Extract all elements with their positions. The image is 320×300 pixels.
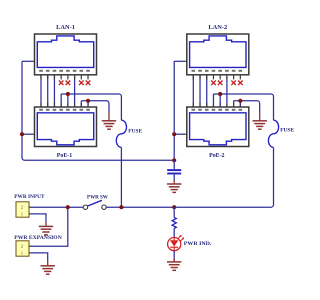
junction PoE-1 pins 4-5 bbox=[66, 92, 70, 96]
RJ45 jack LAN-2 bbox=[187, 34, 249, 75]
junction fuse F1 / power rail bbox=[119, 205, 123, 209]
ground stub J1 bbox=[45, 222, 47, 226]
wire power rail to resistor R1 bbox=[173, 207, 175, 217]
J2 pin 2 stub bbox=[29, 245, 32, 247]
wire LAN-2 pin1 to PoE-2 pin1 bbox=[192, 75, 194, 107]
svg-text:2: 2 bbox=[21, 244, 23, 249]
wire J1 pin2 to switch SW1 bbox=[32, 206, 84, 208]
wire shield net mid vertical bbox=[173, 61, 175, 160]
PoE-2 pin stubs bbox=[193, 103, 240, 107]
wire LED D1 to ground bbox=[173, 251, 175, 261]
svg-text:PoE-2: PoE-2 bbox=[209, 153, 224, 159]
wire LAN-1 pin2 to PoE-1 pin2 bbox=[47, 75, 49, 107]
ground stub capacitor C1 bbox=[173, 180, 175, 184]
junction PoE-2 pins 7-8 bbox=[238, 99, 242, 103]
ground LED D1 bbox=[167, 262, 181, 270]
LAN-1 pin number labels bbox=[39, 70, 90, 72]
wire V+ rail to fuse 1 bbox=[61, 94, 121, 120]
wire return rail to ground 1 bbox=[81, 101, 109, 113]
LAN-1 pin stubs bbox=[41, 75, 88, 80]
wire LAN-2 pin3 to PoE-2 pin3 bbox=[206, 75, 208, 107]
wire fuse F2 to power rail corner bbox=[271, 147, 274, 207]
PoE-1 pin stubs bbox=[41, 103, 88, 107]
wire LAN-1 pin6 to PoE-1 pin6 bbox=[74, 75, 76, 107]
wire PoE-2 pin7 up bbox=[233, 101, 235, 107]
wire PoE-2 pin4 up bbox=[212, 94, 214, 107]
fuse FUSE F1 bbox=[116, 120, 126, 147]
wire PoE-2 shield pin bbox=[174, 133, 183, 135]
PoE-2 pin number labels bbox=[192, 109, 243, 111]
wire J2 pin2 to power tap bbox=[32, 207, 68, 246]
RJ45 jack PoE-2 bbox=[187, 107, 249, 147]
wire J2 pin1 to ground bbox=[32, 253, 48, 262]
J1 pin 2 stub bbox=[29, 206, 32, 208]
LAN-1 shield pin stub bbox=[31, 60, 35, 62]
ground stub LED D1 bbox=[173, 258, 175, 262]
wire fuse F1 to power rail bbox=[120, 147, 122, 207]
ground J2 PWR EXPANSION bbox=[41, 266, 55, 274]
wire J1 pin1 to ground bbox=[32, 214, 46, 222]
switch SW1 bbox=[83, 200, 106, 209]
wire PoE-1 pin7 up bbox=[80, 101, 82, 107]
wire LAN-1 shield pin bbox=[22, 60, 31, 62]
wire PoE-1 pin8 up bbox=[87, 101, 89, 107]
junction power tap J2 bbox=[66, 205, 70, 209]
ground stub J2 bbox=[47, 261, 49, 266]
LAN-2 pin number labels bbox=[192, 70, 243, 72]
wire shield to capacitor C1 bbox=[173, 160, 175, 169]
svg-text:PWR SW: PWR SW bbox=[87, 194, 108, 200]
wire PoE-1 pin4 up bbox=[60, 94, 62, 107]
junction shield PoE-1 bbox=[20, 132, 24, 136]
PoE-1 pin number labels bbox=[39, 109, 90, 111]
junction shield rail / capacitor C1 bbox=[172, 158, 176, 162]
LED D1 PWR IND. bbox=[168, 236, 184, 251]
ground stub PoE-2 bbox=[259, 112, 261, 120]
svg-text:1: 1 bbox=[21, 211, 23, 216]
wire PoE-1 pin5 up bbox=[67, 94, 69, 107]
ground PoE-1 bbox=[102, 121, 116, 129]
wire LAN-1 pin3 to PoE-1 pin3 bbox=[53, 75, 55, 107]
no-connect X marks LAN-1 pins 4,5,7,8 bbox=[59, 81, 90, 86]
ground J1 PWR INPUT bbox=[39, 226, 53, 234]
ground capacitor C1 bbox=[167, 184, 181, 192]
wire PoE-1 shield pin bbox=[22, 133, 31, 135]
junction shield PoE-2 bbox=[172, 132, 176, 136]
svg-text:1: 1 bbox=[21, 250, 23, 255]
wire LAN-2 pin6 to PoE-2 pin6 bbox=[226, 75, 228, 107]
RJ45 jack LAN-1 bbox=[35, 34, 97, 75]
svg-text:PoE-1: PoE-1 bbox=[57, 153, 72, 159]
resistor R1 bbox=[172, 217, 176, 228]
PoE-2 shield pin stub bbox=[183, 133, 187, 135]
wire LAN-2 pin2 to PoE-2 pin2 bbox=[199, 75, 201, 107]
J2 pin 1 stub bbox=[29, 252, 32, 254]
junction PoE-2 pins 4-5 bbox=[218, 92, 222, 96]
RJ45 jack PoE-1 bbox=[35, 107, 97, 147]
connector J2 PWR EXPANSION bbox=[16, 241, 29, 256]
wire capacitor C1 to ground bbox=[173, 174, 175, 180]
wire LAN-1 pin1 to PoE-1 pin1 bbox=[40, 75, 42, 107]
wire switch SW1 to fuse F2 riser bbox=[106, 206, 271, 208]
svg-text:FUSE: FUSE bbox=[280, 128, 294, 134]
svg-text:LAN-1: LAN-1 bbox=[56, 24, 75, 31]
connector J1 PWR INPUT bbox=[16, 202, 29, 217]
svg-text:FUSE: FUSE bbox=[128, 129, 142, 135]
wire resistor R1 to LED D1 bbox=[173, 228, 175, 237]
wire V+ rail to fuse 2 bbox=[213, 94, 273, 120]
wire return rail to ground 2 bbox=[234, 101, 260, 113]
ground PoE-2 bbox=[253, 121, 267, 129]
wire PoE-2 pin8 up bbox=[239, 101, 241, 107]
J1 pin 1 stub bbox=[29, 213, 32, 215]
LAN-2 shield pin stub bbox=[183, 60, 187, 62]
svg-text:LAN-2: LAN-2 bbox=[208, 24, 227, 31]
svg-text:PWR INPUT: PWR INPUT bbox=[14, 194, 44, 200]
wire LAN-2 shield pin bbox=[174, 60, 183, 62]
wire PoE-2 pin5 up bbox=[219, 94, 221, 107]
junction PoE-1 pins 7-8 bbox=[86, 99, 90, 103]
junction resistor R1 / power rail bbox=[172, 205, 176, 209]
fuse FUSE F2 bbox=[268, 120, 278, 147]
svg-text:PWR EXPANSION: PWR EXPANSION bbox=[14, 235, 62, 241]
svg-text:2: 2 bbox=[21, 205, 23, 210]
LAN-2 pin stubs bbox=[193, 75, 240, 80]
capacitor C1 bbox=[167, 170, 181, 173]
ground stub PoE-1 bbox=[108, 112, 110, 120]
no-connect X marks LAN-2 pins 4,5,7,8 bbox=[211, 81, 242, 86]
PoE-1 shield pin stub bbox=[31, 133, 35, 135]
svg-text:PWR IND.: PWR IND. bbox=[184, 241, 212, 247]
wire shield net left vertical bbox=[22, 61, 174, 160]
